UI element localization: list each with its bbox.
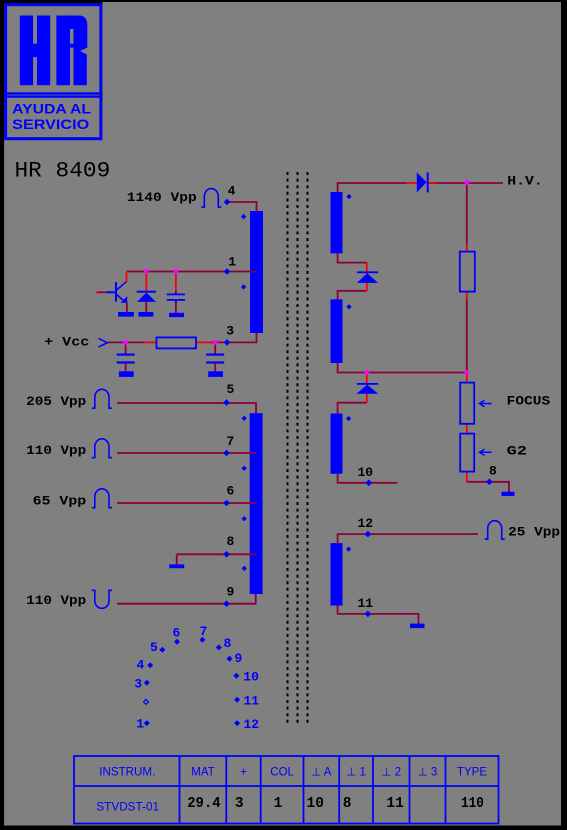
svg-text:3: 3 — [134, 677, 142, 692]
svg-text:+: + — [240, 767, 247, 779]
svg-text:25 Vpp: 25 Vpp — [508, 525, 560, 540]
svg-text:12: 12 — [358, 516, 374, 531]
svg-text:205 Vpp: 205 Vpp — [26, 394, 86, 409]
svg-text:65 Vpp: 65 Vpp — [33, 493, 87, 508]
svg-text:10: 10 — [358, 465, 374, 480]
svg-text:11: 11 — [244, 694, 260, 709]
svg-text:3: 3 — [226, 324, 234, 339]
svg-text:8: 8 — [227, 534, 235, 549]
svg-text:4: 4 — [228, 184, 236, 199]
svg-text:5: 5 — [227, 382, 235, 397]
svg-text:AYUDA AL: AYUDA AL — [12, 102, 91, 117]
svg-text:+ Vcc: + Vcc — [44, 335, 89, 350]
svg-text:11: 11 — [358, 596, 374, 611]
svg-text:SERVICIO: SERVICIO — [12, 117, 89, 132]
svg-text:9: 9 — [235, 651, 243, 666]
svg-text:10: 10 — [307, 796, 324, 812]
svg-text:HR 8409: HR 8409 — [15, 159, 111, 184]
svg-text:⊥ A: ⊥ A — [311, 767, 332, 779]
svg-text:8: 8 — [489, 463, 497, 478]
svg-text:29.4: 29.4 — [187, 796, 221, 812]
svg-text:1: 1 — [274, 796, 283, 812]
svg-text:INSTRUM.: INSTRUM. — [99, 767, 155, 779]
svg-text:H.V.: H.V. — [507, 174, 543, 189]
svg-text:1: 1 — [136, 717, 144, 732]
svg-text:110 Vpp: 110 Vpp — [26, 443, 86, 458]
svg-text:6: 6 — [227, 484, 235, 499]
svg-text:⊥ 1: ⊥ 1 — [346, 767, 366, 779]
svg-text:COL: COL — [270, 767, 294, 779]
svg-text:9: 9 — [227, 585, 235, 600]
svg-text:5: 5 — [150, 640, 158, 655]
svg-text:TYPE: TYPE — [457, 767, 487, 779]
svg-text:3: 3 — [235, 796, 244, 812]
svg-text:10: 10 — [243, 670, 259, 685]
svg-text:11: 11 — [386, 796, 404, 812]
svg-text:STVDST-01: STVDST-01 — [96, 801, 159, 813]
svg-text:7: 7 — [200, 624, 208, 639]
svg-text:⊥ 3: ⊥ 3 — [418, 767, 438, 779]
svg-text:FOCUS: FOCUS — [507, 394, 551, 409]
svg-text:6: 6 — [173, 625, 181, 640]
svg-text:110: 110 — [461, 796, 484, 812]
svg-text:G2: G2 — [507, 444, 528, 459]
svg-text:4: 4 — [137, 657, 145, 672]
svg-text:12: 12 — [244, 717, 260, 732]
svg-text:7: 7 — [227, 434, 235, 449]
svg-text:1140 Vpp: 1140 Vpp — [127, 190, 197, 205]
svg-text:110 Vpp: 110 Vpp — [26, 593, 86, 608]
svg-text:MAT: MAT — [191, 767, 214, 779]
svg-text:8: 8 — [224, 636, 232, 651]
svg-text:1: 1 — [228, 255, 236, 270]
svg-text:8: 8 — [343, 796, 352, 812]
svg-text:⊥ 2: ⊥ 2 — [381, 767, 401, 779]
